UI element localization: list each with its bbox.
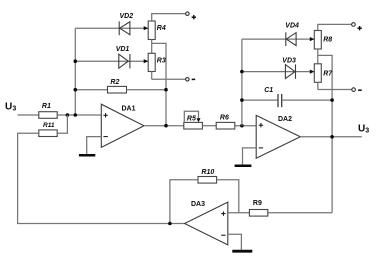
ground DA3 xyxy=(232,250,252,253)
svg-text:DA1: DA1 xyxy=(122,105,136,112)
svg-text:DA2: DA2 xyxy=(278,116,292,123)
wire R6 to DA2 xyxy=(235,125,256,127)
DA2 plus marker xyxy=(259,123,263,127)
resistor R4 xyxy=(148,21,155,40)
svg-text:R7: R7 xyxy=(323,70,333,77)
svg-text:R6: R6 xyxy=(220,115,229,122)
junction dot C1 left xyxy=(240,98,244,102)
wire R2 row xyxy=(75,89,107,91)
wire R3 bottom to - terminal xyxy=(152,72,186,80)
wire VD1 row xyxy=(75,60,148,62)
resistor R3 xyxy=(148,53,155,71)
terminal - left xyxy=(186,78,190,82)
R5 wiper arrow xyxy=(197,118,201,122)
junction dot DA2 output xyxy=(330,135,334,139)
op-amp DA1 xyxy=(101,104,144,147)
wire DA1 output xyxy=(144,125,184,127)
DA2 minus marker xyxy=(259,147,263,149)
wire C1 row xyxy=(242,99,278,101)
wire R7 bottom to - terminal xyxy=(318,82,352,89)
svg-text:R9: R9 xyxy=(253,200,262,207)
wire R4-R3 link loop xyxy=(152,40,166,126)
wiper arrow into R8 xyxy=(310,37,315,41)
wire DA1 inverting to ground xyxy=(87,137,102,154)
junction dot DA3 output xyxy=(168,222,172,226)
junction dot C1 right xyxy=(330,98,334,102)
terminal + right xyxy=(352,23,356,27)
op-amp DA3 xyxy=(185,202,228,245)
node B vertical bus right xyxy=(241,39,243,126)
resistor R7 xyxy=(314,64,321,83)
wire R8-R7 link loop, long vertical to R9 xyxy=(318,49,332,213)
R5 wiper loop xyxy=(184,111,198,122)
svg-text:3: 3 xyxy=(12,106,16,113)
wire VD3 row xyxy=(242,71,314,73)
junction dot bus bottom xyxy=(74,113,78,117)
DA1 minus marker xyxy=(103,136,107,138)
svg-text:VD1: VD1 xyxy=(116,46,130,53)
resistor R11 xyxy=(39,130,57,137)
svg-text:R2: R2 xyxy=(110,79,119,86)
wire input xyxy=(18,114,39,116)
DA3 plus marker xyxy=(221,211,225,215)
wire R2 right xyxy=(127,89,167,91)
diode VD2 xyxy=(119,21,130,35)
svg-text:R5: R5 xyxy=(187,116,196,123)
capacitor C1 xyxy=(278,94,282,107)
wire R11 right up xyxy=(57,115,67,133)
ground DA1 xyxy=(79,154,95,157)
DA1 plus marker xyxy=(103,113,107,117)
svg-text:R11: R11 xyxy=(43,122,55,129)
junction dot R11 xyxy=(66,113,70,117)
node A vertical bus left xyxy=(74,28,76,115)
junction dot VD3 row xyxy=(240,70,244,74)
svg-text:R4: R4 xyxy=(157,25,166,32)
svg-text:U: U xyxy=(5,102,12,113)
junction dot DA1 output xyxy=(164,124,168,128)
svg-text:3: 3 xyxy=(365,128,369,135)
svg-text:VD3: VD3 xyxy=(282,58,296,65)
wire R8 top to + terminal xyxy=(318,24,352,30)
wire R4 top to + terminal xyxy=(152,14,186,21)
junction dot VD1 row xyxy=(74,59,78,63)
junction dot R2 left xyxy=(74,88,78,92)
wire R9 row xyxy=(228,212,332,214)
junction dot R2 right xyxy=(164,88,168,92)
svg-text:U: U xyxy=(358,124,365,135)
svg-text:R8: R8 xyxy=(323,37,332,44)
wire VD2 row xyxy=(75,27,148,29)
wire C1 right xyxy=(282,99,332,101)
wire DA2 inverting to ground xyxy=(243,148,257,165)
diode VD3 xyxy=(285,64,295,78)
resistor R2 xyxy=(108,86,127,93)
svg-text:R1: R1 xyxy=(42,103,51,110)
wire R1 to DA1 xyxy=(57,114,101,116)
wire R11 left down loop xyxy=(18,133,185,223)
junction dot DA2 input xyxy=(240,124,244,128)
resistor R10 xyxy=(198,177,217,184)
resistor R8 xyxy=(314,31,321,50)
svg-text:R3: R3 xyxy=(157,57,166,64)
diode VD1 xyxy=(119,54,130,68)
DA3 minus marker xyxy=(221,234,225,236)
wire R5-R6 xyxy=(202,125,216,127)
wiper arrow into R3 xyxy=(144,59,149,63)
resistor R1 xyxy=(39,112,57,119)
op-amp DA2 xyxy=(256,115,300,158)
svg-text:VD2: VD2 xyxy=(120,13,134,20)
potentiometer R5 xyxy=(184,122,203,129)
svg-text:VD4: VD4 xyxy=(285,23,299,30)
svg-text:C1: C1 xyxy=(264,87,273,94)
wire DA3 inverting to ground xyxy=(228,234,242,250)
wire DA2 output xyxy=(300,136,362,138)
wire R10 right to R9 node xyxy=(217,180,239,213)
resistor R6 xyxy=(216,122,235,129)
wiper arrow into R4 xyxy=(144,26,149,30)
wire R10 left to DA3 output xyxy=(170,180,198,224)
ground DA2 xyxy=(235,165,252,168)
terminal + left xyxy=(186,12,190,16)
diode VD4 xyxy=(286,32,296,46)
svg-text:DA3: DA3 xyxy=(191,201,205,208)
wire VD4 row xyxy=(242,38,314,40)
svg-text:R10: R10 xyxy=(201,169,214,176)
terminal - right xyxy=(352,88,356,92)
wiper arrow into R7 xyxy=(310,70,315,74)
resistor R9 xyxy=(249,210,267,217)
